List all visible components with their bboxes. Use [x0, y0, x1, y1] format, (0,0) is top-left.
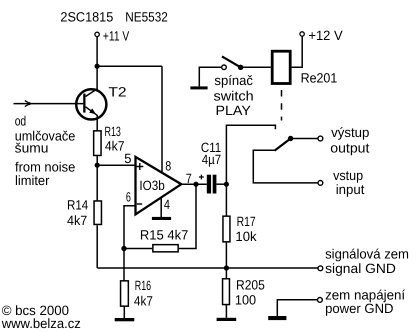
wire R17 bottom [225, 242, 227, 268]
capacitor C11 [199, 140, 221, 194]
wire R205 top [225, 268, 227, 278]
wire switch gnd riser [199, 67, 221, 86]
terminal signal GND [318, 247, 409, 276]
svg-text:šumu: šumu [15, 140, 49, 155]
terminal vstup [318, 168, 365, 197]
wire R16 bottom [123, 307, 125, 319]
wire emitter to R13 [96, 115, 98, 131]
svg-text:10k: 10k [235, 229, 256, 244]
switch PLAY fixed contact [222, 65, 227, 70]
svg-text:8: 8 [165, 159, 171, 174]
relay contact lever [275, 137, 293, 150]
svg-text:PLAY: PLAY [216, 103, 251, 118]
svg-text:input: input [336, 182, 365, 197]
svg-text:R17: R17 [237, 214, 256, 229]
svg-text:switch: switch [214, 88, 254, 103]
svg-text:4: 4 [164, 197, 170, 212]
svg-text:output: output [330, 140, 369, 155]
switch PLAY lever [222, 56, 241, 67]
wire R15 left [124, 248, 152, 250]
svg-text:limiter: limiter [15, 173, 50, 188]
wire R15 right / feedback [179, 184, 196, 248]
svg-text:spínač: spínač [214, 73, 253, 88]
wire pin4 [160, 198, 162, 218]
svg-text:Re201: Re201 [301, 71, 338, 86]
svg-text:2SC1815: 2SC1815 [60, 10, 113, 25]
resistor R16 [121, 278, 153, 308]
ground R205 [217, 318, 237, 321]
svg-text:R16: R16 [135, 278, 151, 293]
svg-text:R14: R14 [67, 198, 89, 213]
wire rail up to NO contact [226, 125, 275, 184]
relay lever pole dot [288, 136, 293, 141]
node signal gnd junction [224, 265, 229, 270]
wire to vystup terminal [291, 138, 318, 140]
terminal vystup [318, 125, 370, 155]
svg-text:+11 V: +11 V [103, 29, 129, 44]
svg-text:R13: R13 [105, 124, 121, 139]
resistor R14 [67, 198, 101, 228]
wire rail down to R17 [225, 184, 227, 216]
wire R205 bottom [225, 305, 227, 318]
input arrow [25, 101, 30, 107]
node C11/rail [224, 182, 229, 187]
transistor T2 [76, 85, 126, 120]
wire pin5 [97, 164, 134, 166]
node output pin7 [193, 182, 198, 187]
ground op-amp [152, 217, 171, 220]
ground R16 [115, 318, 135, 321]
svg-text:www.belza.cz: www.belza.cz [1, 316, 81, 331]
svg-text:4k7: 4k7 [134, 293, 153, 308]
svg-text:IO3b: IO3b [139, 178, 164, 193]
label od umlcovace sumu [15, 114, 76, 156]
ground switch [190, 86, 207, 89]
svg-text:4µ7: 4µ7 [202, 152, 221, 167]
svg-text:100: 100 [235, 293, 256, 308]
ground power [268, 316, 286, 320]
wire top rail [97, 65, 162, 67]
relay actuator dashed link [281, 90, 283, 121]
resistor R13 [94, 124, 125, 156]
wire switch to relay coil [241, 66, 271, 68]
label from noise limiter [15, 159, 75, 187]
resistor R17 [223, 214, 257, 244]
node feedback [121, 246, 126, 251]
svg-text:T2: T2 [108, 85, 126, 100]
svg-text:výstup: výstup [331, 125, 369, 140]
wire base input line [14, 103, 84, 105]
svg-text:4k7: 4k7 [105, 139, 125, 154]
node collector junction [95, 64, 100, 69]
svg-text:+12 V: +12 V [308, 28, 342, 43]
wire R16 top [123, 249, 125, 281]
wire C11 right [216, 183, 226, 185]
label spinac switch PLAY [214, 73, 254, 118]
wire R13 to node [96, 156, 98, 165]
svg-text:signálová zem: signálová zem [325, 247, 409, 262]
wire R14 to signal gnd line [96, 225, 98, 268]
switch PLAY pole dot [238, 65, 243, 70]
svg-text:R205: R205 [236, 278, 265, 293]
svg-text:5: 5 [124, 151, 131, 166]
resistor R15 [140, 228, 189, 252]
terminal power GND [318, 288, 406, 317]
wire pin8 drop [161, 66, 163, 172]
svg-text:power GND: power GND [325, 301, 394, 316]
wire +12V to relay [292, 36, 303, 67]
svg-text:NE5532: NE5532 [125, 10, 168, 25]
resistor R205 [223, 278, 265, 308]
relay coil Re201 [272, 51, 337, 85]
wire output to C11 [181, 183, 207, 185]
node R13/R14/pin5 [95, 163, 100, 168]
wire collector stub [96, 66, 98, 89]
svg-text:od: od [15, 114, 27, 129]
svg-text:6: 6 [126, 190, 131, 205]
svg-text:vstup: vstup [333, 168, 363, 183]
wire node to R14 [96, 165, 98, 200]
svg-text:4k7: 4k7 [67, 213, 87, 228]
svg-text:R15 4k7: R15 4k7 [140, 228, 189, 243]
relay contact step to vstup [253, 150, 318, 183]
wire pin6 [124, 206, 135, 249]
svg-text:signal GND: signal GND [325, 261, 396, 276]
wire power gnd [277, 300, 317, 316]
terminal +11V [95, 29, 129, 44]
wire +11V stub [96, 37, 98, 67]
wire signal gnd line [97, 267, 318, 269]
terminal +12V [300, 28, 343, 43]
op-amp IO3b [136, 157, 182, 215]
